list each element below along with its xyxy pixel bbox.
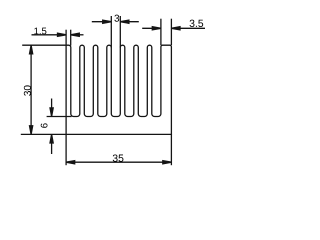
dim 6 top extension line xyxy=(47,116,72,118)
dim text 3.5 xyxy=(190,20,195,27)
dim 1.5 arrowhead left xyxy=(58,33,67,36)
dim 35 arrowhead right xyxy=(163,161,172,164)
dim 1.5 dimension line with text underline xyxy=(32,34,67,36)
dim text 3 xyxy=(114,15,119,22)
dim 3 arrowhead right xyxy=(120,20,129,23)
dim 3.5 dimension lines xyxy=(142,27,161,29)
dim 1.5 arrowhead right xyxy=(71,33,80,36)
dim 3 arrowhead left xyxy=(103,20,112,23)
dim text 30 (rotated) xyxy=(24,91,31,96)
dim 30 arrowhead bottom xyxy=(30,126,33,135)
dim 1.5 left extension line (merges with body left edge) xyxy=(65,30,67,46)
dim 6 upper arrow stem xyxy=(51,99,53,117)
dim 30 arrowhead top xyxy=(30,45,33,54)
dim 6 lower arrow stem xyxy=(51,134,53,154)
dim 3 extension lines (merge into fin legs) xyxy=(110,16,112,48)
dim 30/6 bottom extension line (base bottom extended left) xyxy=(21,133,66,135)
dim 35 extension lines xyxy=(65,134,67,165)
dim 1.5 right extension line xyxy=(70,30,72,46)
dim 3 dimension lines xyxy=(92,21,112,23)
dim 1.5 right tail xyxy=(71,34,84,36)
dim 30 dimension line xyxy=(30,45,32,134)
dim 3.5 arrowhead right xyxy=(171,27,180,30)
dim 3.5 extension lines xyxy=(160,19,162,46)
dim text 35 xyxy=(113,154,118,161)
heatsink extrusion profile outline xyxy=(66,45,171,134)
dim 30 top extension line xyxy=(22,44,66,46)
dim 6 arrowhead top xyxy=(50,108,53,117)
dim 35 dimension line xyxy=(66,161,171,163)
dim text 6 (rotated) xyxy=(41,123,48,127)
dim 3.5 arrowhead left xyxy=(152,27,161,30)
dim text 1.5 xyxy=(34,28,38,35)
dim 35 arrowhead left xyxy=(66,161,75,164)
dim 6 arrowhead bottom xyxy=(50,134,53,143)
